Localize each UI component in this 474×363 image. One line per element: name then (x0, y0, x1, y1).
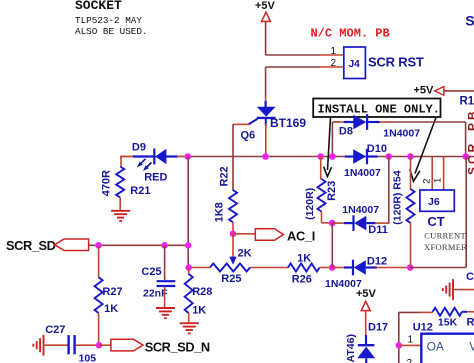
node: C25 top junction (161, 242, 168, 249)
svg-text:S: S (465, 12, 474, 28)
node: D11 left junction (329, 220, 336, 227)
wire: R27 top lead (98, 245, 100, 278)
wire: J6 pin 2 (431, 157, 433, 191)
svg-text:N/C MOM. PB: N/C MOM. PB (311, 27, 390, 41)
svg-text:R23: R23 (326, 181, 338, 201)
resistor R21 470R (116, 167, 124, 198)
connector J4 (344, 47, 366, 79)
ground under R28 (180, 322, 199, 324)
note box INSTALL ONE ONLY. (313, 99, 440, 118)
svg-text:R25: R25 (221, 273, 241, 285)
node: SCR_SD line end junction (185, 242, 192, 249)
node: junction D9/bus (185, 153, 192, 160)
svg-text:1K: 1K (192, 305, 206, 317)
node: R25 left / R28 top (185, 264, 192, 271)
svg-text:AC_I: AC_I (287, 228, 315, 243)
resistor R22 1K8 (229, 190, 237, 222)
svg-text:1K: 1K (297, 252, 311, 264)
svg-text:R21: R21 (130, 185, 150, 197)
wire: D8 output down to bus (465, 122, 467, 157)
svg-text:ALSO BE USED.: ALSO BE USED. (75, 26, 148, 37)
svg-text:V: V (469, 339, 474, 353)
ground under R21 (111, 210, 130, 212)
port AC_I (255, 229, 283, 241)
svg-text:R27: R27 (102, 286, 122, 298)
diode D8 1N4007 (331, 122, 333, 157)
wire: to AC_I port (233, 233, 256, 235)
resistor R54 (120R) (410, 157, 412, 190)
svg-text:D12: D12 (367, 256, 387, 268)
svg-text:SOCKET: SOCKET (75, 0, 122, 13)
node: R54 top on bus (407, 153, 414, 160)
svg-text:1K8: 1K8 (214, 202, 226, 222)
svg-text:105: 105 (79, 352, 97, 363)
wire: vertical x=188 from bus down to R25 left (187, 157, 189, 268)
node: C27/R27/SCR_SD_N junction (96, 342, 103, 349)
wire: +5V right rail (444, 90, 474, 92)
wire: R25-R26 link (250, 267, 289, 269)
svg-text:2: 2 (407, 358, 413, 363)
svg-text:1K: 1K (104, 303, 118, 315)
resistor R27 1K (95, 277, 103, 313)
wire: main gate bus y=156.5 (121, 156, 474, 158)
wire: D9 cathode stub (177, 156, 186, 158)
wire: D11 right up to bus (388, 157, 390, 224)
svg-text:U12: U12 (413, 322, 433, 334)
svg-text:+5V: +5V (356, 288, 377, 300)
svg-text:SCR RST: SCR RST (368, 55, 424, 70)
wire: SCR_SD line (89, 244, 189, 246)
node: R27 top junction (95, 242, 102, 249)
svg-text:RED: RED (144, 172, 167, 184)
svg-text:+5V: +5V (414, 84, 435, 96)
node: D8 branch on bus (329, 153, 336, 160)
wire: ground to C27 (44, 344, 68, 346)
wire: C25 to ground (164, 287, 166, 309)
svg-text:C27: C27 (45, 324, 65, 336)
svg-text:XFORMER: XFORMER (424, 242, 467, 252)
diode D17 BAT46 (365, 335, 367, 344)
svg-text:SCR_SD: SCR_SD (6, 238, 56, 253)
resistor R23 (120R) (320, 157, 322, 180)
wire: +5V to D17 (365, 311, 367, 336)
wire: R21 bottom lead (119, 198, 121, 212)
wire: vertical D11 node to D12 node (331, 223, 333, 267)
node: R26/D12/vertical junction (329, 264, 336, 271)
svg-text:SCR_PB: SCR_PB (466, 108, 474, 175)
arrow from note to R54 (415, 118, 436, 174)
wire: J4 pin 2 line (266, 66, 320, 68)
wire: Q6 gate to R22 column (233, 123, 249, 125)
svg-text:R26: R26 (292, 273, 312, 285)
svg-text:C2: C2 (466, 271, 474, 283)
svg-text:470R: 470R (100, 170, 112, 196)
svg-text:1N4007: 1N4007 (383, 128, 420, 140)
svg-text:(120R): (120R) (304, 188, 316, 220)
wire: R21 top lead and corner (120, 156, 122, 167)
svg-text:C25: C25 (141, 266, 161, 278)
svg-text:1: 1 (433, 178, 444, 183)
svg-text:SCR_SD_N: SCR_SD_N (145, 340, 210, 355)
capacitor C27 105 (67, 335, 69, 354)
svg-text:D8: D8 (339, 125, 353, 137)
svg-text:(120R) R54: (120R) R54 (392, 170, 404, 224)
wire: +5V to J4 pin 1 (265, 22, 267, 56)
arrow from note to R23 (328, 118, 331, 171)
svg-text:15K: 15K (438, 316, 458, 328)
svg-text:Q6: Q6 (241, 129, 256, 141)
wire: Q6 cathode to bus (265, 124, 267, 157)
thyristor Q6 BT169 (265, 67, 267, 96)
wire: R27 bottom lead (98, 313, 100, 345)
port SCR_SD_N (111, 339, 143, 351)
svg-text:J6: J6 (428, 196, 440, 208)
node: D11 branch on bus (386, 153, 393, 160)
wire: R23 bottom to D11 node (321, 212, 323, 223)
svg-text:R28: R28 (192, 286, 212, 298)
wire: to U12 pin 1 (399, 344, 422, 346)
LED D9 (points left) with emission arrows (133, 155, 153, 157)
wire: R22 bottom lead (232, 222, 234, 234)
U12 box border (421, 334, 474, 363)
wire: node to SCR_SD_N port (99, 344, 111, 346)
svg-text:D17: D17 (368, 322, 388, 334)
svg-text:2: 2 (422, 178, 433, 183)
svg-text:OA: OA (427, 339, 444, 353)
capacitor C25 22nF (164, 245, 166, 280)
resistor R28 1K (188, 268, 190, 275)
node: pin1 junction (396, 342, 403, 349)
node: R54 bottom junction (407, 264, 414, 271)
wire: R25 left lead (188, 267, 210, 269)
svg-text:J4: J4 (349, 59, 361, 70)
ground under C25 (156, 307, 175, 309)
svg-text:D11: D11 (368, 224, 388, 236)
wire: CT loop right side (410, 267, 466, 269)
diode D11 1N4007 (332, 222, 344, 224)
svg-text:R5: R5 (467, 316, 474, 328)
diode D12 1N4007 (332, 267, 344, 269)
svg-text:TLP523-2 MAY: TLP523-2 MAY (75, 15, 142, 26)
svg-text:CURRENT: CURRENT (424, 231, 466, 241)
svg-text:1: 1 (408, 335, 414, 346)
resistor 15K (433, 308, 462, 316)
svg-text:2: 2 (330, 58, 336, 69)
resistor R26 1K (288, 264, 320, 272)
svg-text:1N4007: 1N4007 (342, 204, 379, 216)
node: CT loop on bus (463, 153, 470, 160)
wire: ground to right edge (453, 289, 474, 291)
wire: C27 to node (76, 344, 99, 346)
svg-text:INSTALL ONE ONLY.: INSTALL ONE ONLY. (318, 102, 440, 116)
svg-text:1: 1 (330, 46, 336, 57)
wire: J6 pin 1 (443, 157, 445, 191)
ground right edge (rotated) (452, 279, 454, 300)
node: R23 top on bus (317, 153, 324, 160)
diode D10 1N4007 (on bus) (345, 155, 355, 157)
svg-text:BT169: BT169 (270, 116, 306, 130)
ground left of C27 (rotated) (43, 335, 45, 356)
svg-text:D10: D10 (367, 143, 387, 155)
svg-text:R22: R22 (219, 166, 231, 186)
svg-text:2K: 2K (238, 248, 252, 260)
svg-text:1N4007: 1N4007 (344, 167, 381, 179)
wire: feedback vertical (398, 312, 400, 363)
svg-text:(BAT46): (BAT46) (345, 334, 357, 363)
wire: feedback top to 15K (399, 311, 420, 313)
wire: R26 to D12 node (320, 267, 334, 269)
svg-text:+5V: +5V (255, 0, 276, 12)
wire: R28 bottom lead (188, 313, 190, 324)
svg-text:D9: D9 (132, 142, 146, 154)
wire: potentiometer R25 wiper (232, 234, 234, 258)
node: Q6 cathode on bus (262, 153, 269, 160)
node: R22/AC_I/wiper junction (230, 231, 237, 238)
svg-text:R1: R1 (460, 95, 474, 107)
potentiometer R25 2K (210, 264, 250, 272)
svg-text:CT: CT (427, 214, 444, 229)
